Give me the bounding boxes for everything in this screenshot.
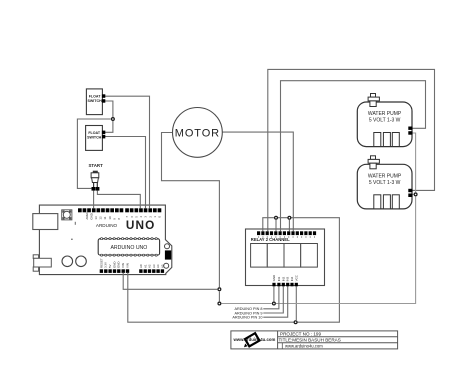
start button S1: [88, 163, 103, 187]
pump P1 terminal upper: [408, 127, 412, 130]
junction float switches: [112, 118, 115, 121]
wire relay T3 over top loop to water pump 2 positive: [268, 69, 435, 231]
relay bottom pin labels: [272, 275, 298, 281]
capacitor C2: [76, 256, 87, 267]
USB connector: [33, 214, 58, 230]
tiny silkscreen mark: [74, 222, 77, 225]
title block logo: [245, 333, 259, 346]
svg-text:WATER PUMP: WATER PUMP: [368, 173, 402, 179]
wire relay IN3 stub to label: [263, 286, 287, 317]
digital header row 2 labels: [125, 216, 161, 218]
relay block 3: [284, 244, 301, 268]
analog header pins: [139, 269, 164, 273]
wire start right terminal to Arduino pin 4: [97, 191, 140, 209]
wire relay IN2 stub to label: [263, 286, 283, 313]
relay block 4: [301, 244, 318, 268]
wire J1 to J2: [218, 291, 220, 301]
svg-text:5 VOLT 1-3 W: 5 VOLT 1-3 W: [369, 118, 401, 124]
junction VCC T5: [275, 216, 278, 219]
pump P2 terminal upper: [408, 189, 412, 192]
IC chip ARDUINO UNO: [98, 238, 159, 257]
wire relay VCC pin to J4: [295, 286, 297, 320]
svg-text:13: 13: [94, 216, 98, 220]
wire stubs into Arduino top pins: [94, 205, 150, 209]
relay 2 channel module: [246, 229, 325, 286]
svg-text:VIN: VIN: [125, 263, 129, 268]
wire VCC net relay commons to Arduino 5V: [128, 218, 340, 323]
svg-text:MOTOR: MOTOR: [175, 127, 220, 139]
FS2 terminal lower: [102, 135, 105, 139]
svg-text:SWITCH: SWITCH: [87, 136, 102, 140]
wire relay IN1 stub to label: [263, 286, 279, 309]
wire FS1 lower terminal to junction: [105, 101, 113, 117]
wire stubs out of Arduino bottom pins: [123, 273, 128, 276]
svg-text:IN2: IN2: [281, 276, 285, 281]
tiny silkscreen dot: [71, 239, 72, 240]
svg-text:ARDUINO UNO: ARDUINO UNO: [110, 245, 147, 251]
reset button: [62, 210, 72, 220]
FS1 terminal upper: [102, 94, 105, 98]
junction VCC T8: [288, 216, 291, 219]
svg-text:RESET: RESET: [99, 258, 103, 268]
title block: [231, 331, 398, 349]
wire pump2 lower stub: [413, 193, 414, 195]
water pump P2: [357, 156, 412, 209]
water pump P1: [357, 94, 412, 147]
svg-text:10: 10: [108, 216, 112, 220]
svg-text:SWITCH: SWITCH: [88, 99, 103, 103]
wire Arduino GND pin to junction J1: [123, 271, 217, 289]
FS1 terminal lower: [102, 99, 105, 103]
junction pump2 lower: [414, 193, 417, 196]
svg-text:START: START: [88, 163, 103, 168]
wire FS2 lower terminal to Arduino pin 3: [105, 137, 146, 209]
relay top terminals: [257, 231, 316, 235]
wire start left terminal to Arduino GND pin: [93, 191, 95, 209]
svg-text:WATER PUMP: WATER PUMP: [368, 111, 402, 117]
wire GND rail J2 to J3 to pump lower terminals: [222, 133, 416, 304]
wire junction to FS2 upper terminal: [105, 121, 113, 132]
power header labels: [99, 258, 129, 268]
wire stubs into relay top terminals: [263, 228, 294, 231]
wire FS1 upper terminal to Arduino pin 2: [105, 96, 150, 208]
FS2 terminal upper: [102, 131, 105, 135]
svg-text:ARDUINO PIN 10: ARDUINO PIN 10: [232, 316, 262, 320]
mounting hole bottom right: [164, 263, 169, 268]
relay block 2: [267, 244, 284, 268]
Arduino UNO board outline: [39, 205, 171, 275]
pump P2 terminal lower: [408, 194, 412, 198]
relay terminal tick marks: [258, 236, 315, 238]
wire motor right to relay terminal T9: [222, 132, 293, 231]
svg-text:GND: GND: [117, 262, 121, 268]
junction J2 GND rail: [218, 302, 221, 305]
digital header row 1 labels: [85, 212, 121, 220]
digital header row 2 pins: [125, 208, 161, 212]
float switch FS2: [86, 126, 103, 151]
svg-text:11: 11: [103, 216, 107, 219]
junction J3 relay GND: [273, 302, 276, 305]
float switch FS1: [86, 89, 102, 115]
wire junction to left loop to start button left terminal: [77, 119, 111, 188]
svg-text:FLOAT: FLOAT: [88, 131, 101, 135]
analog header labels: [139, 264, 165, 268]
pump P1 terminal lower: [408, 131, 412, 135]
svg-text:GND: GND: [272, 275, 276, 281]
svg-text:www.arduino4u.com: www.arduino4u.com: [232, 337, 275, 342]
svg-text:5 VOLT 1-3 W: 5 VOLT 1-3 W: [369, 180, 401, 186]
svg-text:PROJECT NO : 199: PROJECT NO : 199: [280, 332, 321, 337]
wire relay T6 over inner loop to water pump 1 positive: [281, 81, 426, 232]
junction J4 relay VCC: [294, 321, 297, 324]
svg-text:5V: 5V: [108, 264, 112, 268]
wire motor left to junction J1: [162, 133, 220, 288]
wire relay GND pin to J3: [273, 286, 275, 301]
wire junction T8 stub: [288, 220, 290, 232]
start terminal right: [96, 187, 100, 191]
svg-text:VCC: VCC: [294, 275, 298, 281]
motor M1: [173, 107, 223, 157]
capacitor C1: [62, 256, 73, 267]
digital header row 1 pins: [78, 208, 123, 212]
svg-text:FLOAT: FLOAT: [89, 94, 102, 98]
power header pins: [100, 269, 130, 273]
wire junction T5 stub: [275, 220, 277, 232]
svg-text:12: 12: [99, 216, 103, 220]
relay bottom pins: [272, 283, 298, 287]
start terminal left: [92, 187, 96, 191]
svg-text:IN1: IN1: [277, 276, 281, 281]
svg-text:TITLE:MESIN BASUH BERAS: TITLE:MESIN BASUH BERAS: [279, 338, 341, 343]
svg-text:ARDUINO: ARDUINO: [96, 223, 118, 228]
junction J1 GND motor: [218, 288, 221, 291]
svg-text:www.arduino4u.com: www.arduino4u.com: [285, 343, 323, 348]
relay block 1: [251, 244, 268, 268]
svg-text:AREF: AREF: [85, 212, 89, 220]
power jack: [33, 255, 51, 271]
ICSP black block: [165, 250, 171, 259]
svg-text:UNO: UNO: [126, 218, 156, 232]
mounting hole top right: [165, 244, 170, 249]
svg-text:GND: GND: [89, 213, 93, 219]
